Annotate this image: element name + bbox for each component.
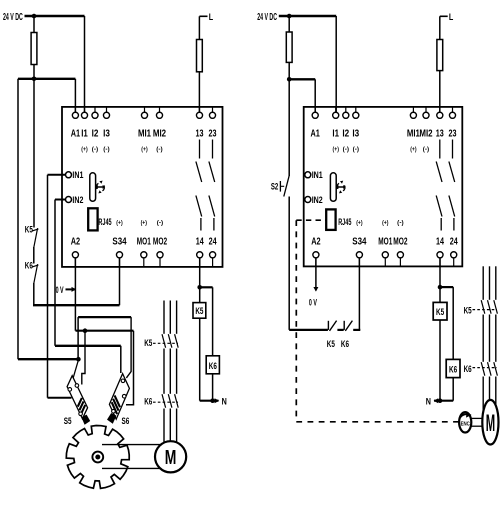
terminal 23 pin circle (right) <box>449 112 455 118</box>
terminal MO1 pin circle (left) <box>141 252 147 258</box>
wire 24VDC supply horizontal (right) <box>279 15 336 17</box>
terminal I3 stub (right) <box>355 107 357 112</box>
svg-text:A1: A1 <box>311 129 321 140</box>
terminal MO2 pin circle (right) <box>397 252 403 258</box>
wire between K5 and K6 contacts (left) <box>33 247 35 264</box>
svg-text:MI1: MI1 <box>138 129 151 140</box>
svg-text:13: 13 <box>436 129 444 140</box>
wire branch to K6 feed (right) <box>440 286 453 288</box>
USB port icon (left) <box>90 173 105 202</box>
terminal MO2 pin circle (left) <box>157 252 163 258</box>
svg-text:A2: A2 <box>71 237 81 248</box>
svg-text:K6: K6 <box>209 361 217 371</box>
dashed link RJ45 horizontal (right) <box>296 219 325 221</box>
svg-text:13: 13 <box>196 129 204 140</box>
svg-text:14: 14 <box>436 237 444 248</box>
wire K6 coil to N rail (left) <box>212 374 214 401</box>
svg-text:(+): (+) <box>333 146 339 153</box>
terminal MO2 stub (right) <box>399 258 401 266</box>
phase line L1 middle (left) <box>163 349 165 394</box>
relay contact 13-14 (left) <box>196 140 202 231</box>
wire L tick (left) <box>199 15 207 17</box>
svg-text:24: 24 <box>209 237 217 248</box>
contact K6 feedback (left) <box>32 264 39 283</box>
phase line L3 lower (left) <box>176 409 178 447</box>
terminal 13 stub (left) <box>199 107 201 112</box>
terminal A2 stub (right) <box>315 258 317 266</box>
terminal MI2 pin circle (right) <box>423 112 429 118</box>
wire A2 rail y=331 (left) <box>76 330 134 332</box>
motor shaft lower line <box>102 467 164 469</box>
terminal MI1 stub (right) <box>412 107 414 112</box>
svg-text:24 V DC: 24 V DC <box>3 12 23 23</box>
phase line L1 lower (left) <box>163 409 165 447</box>
dashed K5 contact link (left) <box>153 342 178 344</box>
svg-text:K6: K6 <box>449 364 457 374</box>
input IN1 pin circle (right) <box>305 172 311 178</box>
wire IN2 rail y=346 (left) <box>55 345 121 347</box>
svg-text:0 V: 0 V <box>309 296 317 307</box>
svg-text:K6: K6 <box>25 259 33 270</box>
fuse F1 in 24VDC line (left) <box>31 33 37 65</box>
terminal MO2 stub (left) <box>159 258 161 267</box>
wire lower-left rail y=359 (left) <box>18 358 78 360</box>
USB port icon (right) <box>330 173 345 202</box>
terminal MI1 pin circle (right) <box>410 112 416 118</box>
svg-text:RJ45: RJ45 <box>98 217 112 228</box>
wire L tick (right) <box>440 15 448 17</box>
phase line L2 upper (left) <box>169 301 171 334</box>
RJ45 jack square (right) <box>326 209 335 230</box>
svg-text:23: 23 <box>209 129 217 140</box>
terminal A1 pin circle (right) <box>312 112 318 118</box>
junction K6 at N rail (left) <box>210 398 215 403</box>
terminal 23 stub (left) <box>212 107 214 112</box>
wire plunger drop S5 (left) <box>77 317 79 359</box>
terminal S34 stub (right) <box>358 258 360 266</box>
terminal MO1 stub (right) <box>384 258 386 266</box>
svg-text:I1: I1 <box>81 129 88 140</box>
wire K6 coil feed (right) <box>452 287 454 359</box>
wire between aux contacts (right) <box>337 329 343 331</box>
wire S5 plunger diagonal (left) <box>73 360 78 378</box>
svg-text:(-): (-) <box>92 146 98 153</box>
relay contact 23-24 (left) <box>209 140 215 231</box>
wire K5 coil to N rail (left) <box>199 318 201 401</box>
contactor K6 main contacts (right) <box>481 362 497 376</box>
phase line L3 upper (left) <box>176 301 178 334</box>
contactor K5 main contacts (right) <box>481 300 497 314</box>
terminal 24 stub (left) <box>212 258 214 267</box>
terminal I2 stub (right) <box>345 107 347 112</box>
cam hub center dot <box>95 455 100 460</box>
svg-text:N: N <box>426 397 431 408</box>
wire S5 branch vertical (left) <box>82 331 85 385</box>
svg-text:K5: K5 <box>464 305 472 316</box>
wire feedback rail y=330 (right) <box>289 329 328 331</box>
arrow at 0V (right) <box>313 287 318 292</box>
terminal 13 pin circle (right) <box>437 112 443 118</box>
terminal A2 pin circle (right) <box>313 252 319 258</box>
terminal 14 stub (left) <box>199 258 201 267</box>
contact K5 feedback (left) <box>32 228 39 247</box>
junction at fuse output (left) <box>32 77 37 82</box>
phase line L3 middle (right) <box>495 315 497 362</box>
phase line L2 lower (right) <box>489 377 491 413</box>
wire plunger drop S6 (left) <box>126 317 131 378</box>
wire A2 to 0V (right) <box>315 258 317 291</box>
junction on 24VDC wire at fuse F1 (left) <box>32 14 37 19</box>
terminal S34 stub (left) <box>119 258 121 267</box>
motor M2 ellipse (right) <box>482 400 498 445</box>
wire rail to S6 terminal (left) <box>120 346 122 373</box>
svg-text:L: L <box>209 12 213 23</box>
phase line L2 upper (right) <box>489 266 491 300</box>
wire fuse drop (left) <box>33 16 35 79</box>
svg-text:A2: A2 <box>311 237 321 248</box>
arrow at N (left) <box>215 398 220 403</box>
input IN1 pin circle (left) <box>66 172 72 178</box>
terminal 14 pin circle (right) <box>437 252 443 258</box>
coil K5 box (left) <box>193 303 206 319</box>
coil K5 box (right) <box>433 302 447 320</box>
phase line L3 lower (right) <box>495 377 497 413</box>
phase line L1 upper (right) <box>482 266 484 300</box>
motor shaft upper line <box>102 444 164 446</box>
wire 14 to K5 coil (left) <box>199 258 201 303</box>
svg-text:I3: I3 <box>352 129 359 140</box>
phase line L2 middle (right) <box>489 315 491 362</box>
svg-text:(+): (+) <box>81 146 87 153</box>
terminal I1 pin circle (left) <box>81 112 87 118</box>
terminal I3 stub (left) <box>106 107 108 112</box>
svg-text:24 V DC: 24 V DC <box>257 12 277 23</box>
terminal A2 pin circle (left) <box>72 252 78 258</box>
terminal 14 stub (right) <box>439 258 441 266</box>
svg-text:I2: I2 <box>342 129 349 140</box>
svg-text:14: 14 <box>196 237 204 248</box>
wire IN1 horizontal (left) <box>48 174 67 176</box>
terminal I3 pin circle (right) <box>353 112 359 118</box>
wire 24VDC supply horizontal (left) <box>25 15 85 17</box>
safety relay U1 box (left) <box>62 107 223 267</box>
svg-text:(-): (-) <box>157 219 163 226</box>
wire up to S34 (right) <box>358 258 360 330</box>
svg-text:S6: S6 <box>122 416 130 427</box>
wire IN1 vertical (left) <box>47 175 49 398</box>
svg-text:(-): (-) <box>423 146 429 153</box>
junction plunger S5 (left) <box>76 357 81 362</box>
terminal MI1 stub (left) <box>144 107 146 112</box>
position switch S6 body <box>107 374 129 424</box>
wire A2 rail down to S6 (left) <box>126 331 134 405</box>
phase line L1 upper (left) <box>163 301 165 334</box>
svg-text:I2: I2 <box>92 129 99 140</box>
svg-text:(-): (-) <box>353 146 359 153</box>
wire to terminal I1 (left) <box>84 16 86 112</box>
wire L drop to fuse (right) <box>439 16 441 112</box>
terminal 13 stub (right) <box>439 107 441 112</box>
coil K6 box (right) <box>446 359 460 377</box>
svg-text:(-): (-) <box>343 146 349 153</box>
terminal I2 stub (left) <box>94 107 96 112</box>
junction 14 branch (right) <box>438 285 443 290</box>
dashed K5 contact link (right) <box>473 309 498 311</box>
encoder shaft lower line <box>470 425 484 427</box>
junction arrow at 0V tick (left) <box>72 287 77 292</box>
fuse F3 in 24VDC line (right) <box>286 32 292 62</box>
terminal S34 pin circle (left) <box>116 252 122 258</box>
svg-text:(+): (+) <box>382 219 388 226</box>
phase line L3 upper (right) <box>495 266 497 300</box>
wire to terminal A1 (left) <box>74 79 76 112</box>
svg-text:(+): (+) <box>141 219 147 226</box>
svg-text:MO2: MO2 <box>393 237 408 248</box>
wire L drop to fuse (left) <box>198 16 200 112</box>
svg-text:K6: K6 <box>464 363 472 374</box>
junction on 24VDC wire (right) <box>287 14 292 19</box>
svg-text:K5: K5 <box>436 307 444 317</box>
wire K6 contact to bottom rail (left) <box>33 283 35 306</box>
wire S34 drop (left) <box>119 258 121 305</box>
svg-text:(-): (-) <box>397 219 403 226</box>
wire branch to K6 coil (left) <box>200 286 213 288</box>
svg-text:K5: K5 <box>195 306 203 316</box>
contact K6 aux (right) <box>344 321 352 331</box>
terminal 24 stub (right) <box>453 258 455 266</box>
svg-text:K5: K5 <box>25 223 33 234</box>
svg-text:I1: I1 <box>332 129 339 140</box>
cam hub outer circle <box>92 452 103 463</box>
terminal A2 stub (left) <box>74 258 76 267</box>
terminal I3 pin circle (left) <box>103 112 109 118</box>
wire K5 coil to N rail (right) <box>439 320 441 401</box>
svg-text:S2: S2 <box>271 181 278 192</box>
svg-text:RJ45: RJ45 <box>338 217 352 228</box>
terminal A1 stub (left) <box>74 107 76 112</box>
svg-text:23: 23 <box>449 129 457 140</box>
wire IN2 vertical (left) <box>54 200 56 346</box>
dashed link to encoder (right) <box>296 421 459 423</box>
junction at fuse output (right) <box>287 77 292 82</box>
svg-text:I3: I3 <box>103 129 110 140</box>
svg-text:K5: K5 <box>327 338 335 349</box>
wire N rail (right) <box>434 400 453 402</box>
svg-text:(+): (+) <box>410 146 416 153</box>
terminal MI1 pin circle (left) <box>141 112 147 118</box>
wire IN1 to S5 terminal (left) <box>48 397 72 399</box>
wire N rail (left) <box>200 400 219 402</box>
svg-text:MO2: MO2 <box>153 237 168 248</box>
relay contact 13-14 (right) <box>436 140 442 231</box>
junction A2-rail to S5 branch (left) <box>83 328 88 333</box>
wire IN2 horizontal (left) <box>55 199 66 201</box>
svg-text:L: L <box>449 12 453 23</box>
wire to switch S2 (right) <box>288 79 290 176</box>
phase line L1 middle (right) <box>482 315 484 362</box>
svg-text:S5: S5 <box>64 416 72 427</box>
phase line L3 middle (left) <box>176 349 178 394</box>
svg-text:M: M <box>165 446 177 469</box>
terminal I1 stub (right) <box>335 107 337 112</box>
fuse F2 in L line (left) <box>197 40 203 72</box>
svg-text:N: N <box>222 397 227 408</box>
wire down to A1 (right) <box>314 79 316 112</box>
dashed K6 contact link (left) <box>153 401 178 403</box>
terminal I2 pin circle (left) <box>92 112 98 118</box>
wire 0V tick (left) <box>66 288 76 290</box>
svg-text:(-): (-) <box>156 146 162 153</box>
svg-text:(+): (+) <box>116 219 122 226</box>
svg-text:24: 24 <box>450 237 458 248</box>
svg-text:IN2: IN2 <box>312 195 323 205</box>
svg-text:(+): (+) <box>141 146 147 153</box>
terminal 23 stub (right) <box>452 107 454 112</box>
svg-text:S34: S34 <box>112 237 127 248</box>
wire S2 to series contacts (right) <box>288 197 290 330</box>
svg-text:IN1: IN1 <box>72 170 83 180</box>
wire K6 coil to N rail (right) <box>452 378 454 401</box>
terminal I1 stub (left) <box>84 107 86 112</box>
svg-text:K5: K5 <box>144 337 152 348</box>
wire A2 vertical with 0V tap (left) <box>74 258 76 331</box>
coil K6 box (left) <box>206 356 219 374</box>
terminal 13 pin circle (left) <box>196 112 202 118</box>
contact K5 aux (right) <box>328 321 336 331</box>
wire plunger rail y=317 (left) <box>78 316 131 318</box>
terminal 24 pin circle (right) <box>451 252 457 258</box>
terminal MI2 stub (left) <box>159 107 161 112</box>
terminal 23 pin circle (left) <box>209 112 215 118</box>
svg-text:MI1: MI1 <box>407 129 420 140</box>
encoder rotation arrow <box>459 414 469 419</box>
dashed K6 contact link (right) <box>473 367 498 369</box>
wire left rail x=18 down (left) <box>17 79 19 359</box>
svg-text:MO1: MO1 <box>137 237 151 248</box>
contactor K5 main contacts (left) <box>162 334 178 348</box>
junction K5 at N rail (right) <box>438 398 443 403</box>
arrow at N (right) <box>434 398 439 403</box>
terminal I2 pin circle (right) <box>343 112 349 118</box>
switch S2 contact diagonal <box>284 176 289 197</box>
encoder shaft upper line <box>470 417 484 419</box>
wire branch 24V horizontal y=79 (left) <box>18 78 75 80</box>
relay contact 23-24 (right) <box>449 140 455 231</box>
terminal MI2 pin circle (left) <box>156 112 162 118</box>
svg-text:A1: A1 <box>71 129 81 140</box>
terminal A1 pin circle (left) <box>72 112 78 118</box>
svg-text:ENC: ENC <box>461 421 470 427</box>
terminal 14 pin circle (left) <box>197 252 203 258</box>
svg-text:MI2: MI2 <box>153 129 167 140</box>
terminal MO1 pin circle (right) <box>382 252 388 258</box>
terminal S34 pin circle (right) <box>356 252 362 258</box>
wire fuse drop (right) <box>288 16 290 79</box>
phase line L2 middle (left) <box>169 349 171 394</box>
encoder ENC ellipse <box>459 412 471 432</box>
safety relay U2 box (right) <box>304 107 463 267</box>
switch S2 actuator bar <box>280 181 284 192</box>
wire aux contacts to S34 (right) <box>353 329 360 331</box>
wire branch to A1 (right) <box>289 78 315 80</box>
position switch S5 body <box>67 376 90 425</box>
svg-text:MI2: MI2 <box>419 129 433 140</box>
wire feedback rail y=305 (left) <box>33 304 120 306</box>
phase line L1 lower (right) <box>482 377 484 413</box>
terminal MO1 stub (left) <box>143 258 145 267</box>
svg-text:K6: K6 <box>341 338 349 349</box>
phase line L2 lower (left) <box>169 409 171 447</box>
terminal A1 stub (right) <box>314 107 316 112</box>
terminal 24 pin circle (left) <box>210 252 216 258</box>
dashed link vertical (right) <box>295 220 297 422</box>
motor M1 circle (left) <box>155 441 186 472</box>
contactor K6 main contacts (left) <box>162 394 178 408</box>
junction 14 branch (left) <box>197 285 202 290</box>
input IN2 pin circle (right) <box>305 197 311 203</box>
svg-text:IN1: IN1 <box>312 170 323 180</box>
RJ45 jack square (left) <box>88 208 97 230</box>
wire K6 coil feed vertical (left) <box>212 287 214 356</box>
terminal MI2 stub (right) <box>425 107 427 112</box>
svg-text:S34: S34 <box>352 237 367 248</box>
svg-text:M: M <box>486 410 495 437</box>
input IN2 pin circle (left) <box>66 197 72 203</box>
svg-text:(+): (+) <box>356 219 362 226</box>
svg-text:IN2: IN2 <box>72 195 83 205</box>
fuse F4 in L line (right) <box>437 40 443 71</box>
wire 14 to K5 coil (right) <box>439 258 441 302</box>
svg-text:0 V: 0 V <box>56 284 64 295</box>
wire to I1 (right) <box>335 16 337 112</box>
svg-text:MO1: MO1 <box>378 237 392 248</box>
wire K5/K6 feedback chain upper (left) <box>33 79 35 228</box>
svg-text:K6: K6 <box>144 396 152 407</box>
svg-text:(-): (-) <box>103 146 109 153</box>
terminal I1 pin circle (right) <box>333 112 339 118</box>
cam disc on motor shaft <box>66 426 129 489</box>
